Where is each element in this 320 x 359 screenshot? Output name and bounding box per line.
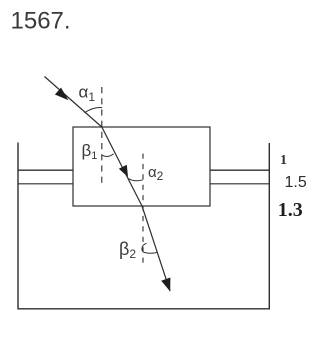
incident ray arrowhead xyxy=(55,88,69,101)
svg-text:α1: α1 xyxy=(79,83,96,104)
liquid surface line right lower xyxy=(210,183,269,185)
ray in liquid xyxy=(142,206,170,291)
svg-text:1.5: 1.5 xyxy=(285,174,307,191)
incident ray xyxy=(45,77,102,128)
svg-text:β1: β1 xyxy=(82,141,98,162)
svg-text:1: 1 xyxy=(280,153,287,168)
final arrowhead xyxy=(161,278,170,292)
liquid surface line left lower xyxy=(18,183,73,185)
alpha1 angle arc xyxy=(84,107,102,112)
beta2 angle arc xyxy=(142,243,158,253)
svg-text:β2: β2 xyxy=(119,239,136,261)
beta1 angle arc xyxy=(102,154,114,157)
in-slab arrowhead xyxy=(119,165,128,177)
svg-text:1.3: 1.3 xyxy=(278,199,303,221)
glass slab rectangle xyxy=(73,127,210,206)
svg-text:1567.: 1567. xyxy=(11,8,71,35)
alpha2 angle arc xyxy=(128,179,143,181)
liquid surface line left upper xyxy=(18,169,73,171)
ray inside slab xyxy=(102,127,142,206)
liquid surface line right upper xyxy=(210,169,269,171)
dashed normal at entry point xyxy=(101,87,103,187)
dashed normal at exit point xyxy=(142,154,144,266)
container tank (open top) xyxy=(18,143,269,309)
svg-text:α2: α2 xyxy=(148,164,164,183)
